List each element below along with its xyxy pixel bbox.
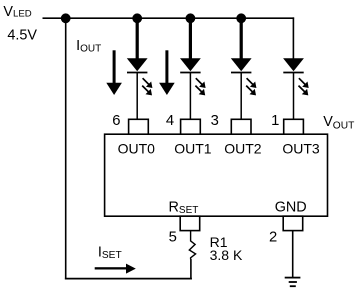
svg-text:OUT3: OUT3	[282, 141, 320, 157]
svg-text:RSET: RSET	[169, 199, 199, 216]
svg-text:IOUT: IOUT	[76, 38, 101, 55]
svg-text:1: 1	[271, 113, 279, 129]
svg-text:VOUT: VOUT	[323, 114, 354, 131]
svg-text:3: 3	[211, 113, 219, 129]
svg-text:4.5V: 4.5V	[7, 28, 37, 44]
svg-text:6: 6	[112, 113, 120, 129]
svg-text:GND: GND	[275, 199, 307, 215]
svg-text:2: 2	[269, 230, 277, 246]
svg-text:OUT1: OUT1	[174, 141, 212, 157]
svg-text:ISET: ISET	[98, 245, 122, 261]
svg-text:OUT0: OUT0	[118, 141, 156, 157]
svg-text:3.8 K: 3.8 K	[210, 247, 243, 263]
svg-text:4: 4	[166, 113, 174, 129]
svg-text:OUT2: OUT2	[224, 141, 262, 157]
svg-text:VLED: VLED	[3, 4, 31, 20]
svg-text:5: 5	[169, 229, 177, 245]
